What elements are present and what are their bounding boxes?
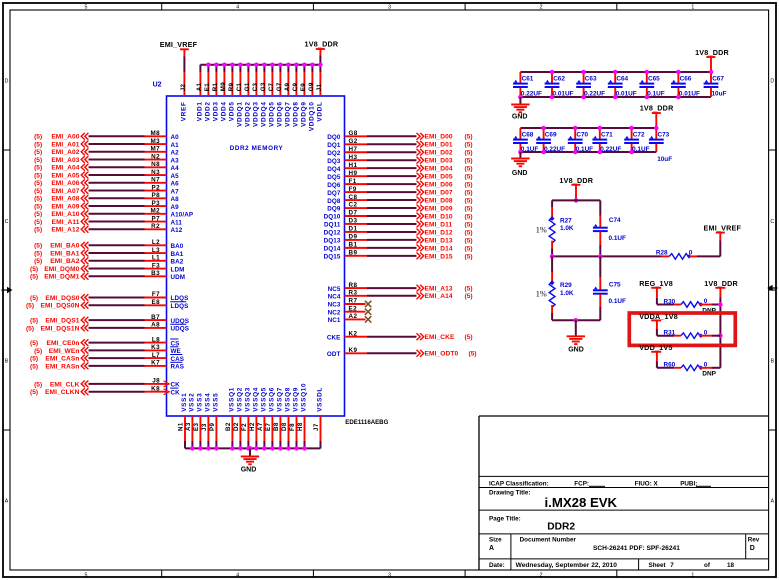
resistor R28 0 <box>656 250 697 260</box>
svg-text:A7: A7 <box>257 422 264 431</box>
svg-text:NC4: NC4 <box>328 294 341 301</box>
pin VSSQ5 (A7) <box>257 387 267 448</box>
wire net EMI_D07 <box>367 191 417 193</box>
svg-text:CK: CK <box>171 382 181 389</box>
junction bank2 top / C69 <box>541 126 546 131</box>
pin VSSQ3 (F2) <box>241 387 251 448</box>
net label EMI_WEn <box>34 348 79 355</box>
svg-text:(5): (5) <box>465 134 473 141</box>
net label EMI_A04 <box>34 165 80 172</box>
pin A11 (P7) <box>145 215 183 226</box>
svg-text:C63: C63 <box>585 75 597 82</box>
svg-text:B9: B9 <box>349 250 358 257</box>
wire net EMI_D06 <box>367 183 417 185</box>
svg-text:VSSQ4: VSSQ4 <box>252 387 259 412</box>
svg-text:R9: R9 <box>228 82 235 91</box>
svg-text:DDR2: DDR2 <box>547 522 575 533</box>
junction VSS bus / VSSQ9 <box>294 446 299 451</box>
svg-text:F2: F2 <box>241 423 248 431</box>
svg-text:G2: G2 <box>349 138 358 145</box>
svg-text:EMI_A14: EMI_A14 <box>425 293 453 300</box>
wire net EMI_DQS1 <box>89 319 145 321</box>
svg-text:Size: Size <box>489 537 502 544</box>
junction rail / R31 <box>718 333 723 338</box>
net label EMI_D09 <box>425 205 473 212</box>
svg-text:1%: 1% <box>536 290 547 299</box>
svg-text:DQ10: DQ10 <box>324 214 341 221</box>
svg-text:EMI_WEn: EMI_WEn <box>49 348 80 355</box>
svg-text:0.01UF: 0.01UF <box>616 90 637 97</box>
svg-text:NC3: NC3 <box>328 302 341 309</box>
svg-text:(5): (5) <box>465 293 473 300</box>
pin VDDQ3 (C3) <box>252 65 259 127</box>
pin A2 (M7) <box>145 146 180 157</box>
net label EMI_D13 <box>425 237 473 244</box>
svg-text:EMI_A01: EMI_A01 <box>51 141 79 148</box>
svg-text:VSSDL: VSSDL <box>316 387 323 412</box>
net label EMI_A09 <box>34 203 80 210</box>
junction VDD bus / VDDQ3 <box>254 62 259 67</box>
wire net EMI_CKE <box>367 336 417 338</box>
svg-text:VSS3: VSS3 <box>196 393 203 412</box>
wire net EMI_D02 <box>367 151 417 153</box>
pin VDDQ8 (C9) <box>292 65 299 127</box>
svg-text:F7: F7 <box>152 291 160 298</box>
power symbol 1V8_DDR (cap bank C68-C73) <box>640 104 674 113</box>
wire net EMI_D10 <box>367 215 417 217</box>
svg-text:0.01UF: 0.01UF <box>553 90 574 97</box>
svg-text:F3: F3 <box>152 262 160 269</box>
svg-text:(5): (5) <box>34 250 42 257</box>
wire net EMI_A06 <box>89 182 145 184</box>
junction VDD bus / VDDQ1 <box>238 62 243 67</box>
off-page connector EMI_CASn <box>81 355 88 362</box>
svg-text:C73: C73 <box>658 132 670 139</box>
capacitor C64 <box>608 72 637 97</box>
revision marker arrow right <box>767 285 777 291</box>
wire net EMI_ODT0 <box>367 352 417 354</box>
svg-text:A5: A5 <box>171 173 180 180</box>
svg-text:VDDQ8: VDDQ8 <box>292 101 299 127</box>
net label EMI_CLKN <box>30 389 80 396</box>
svg-text:A10/AP: A10/AP <box>171 212 194 219</box>
svg-text:L8: L8 <box>152 336 160 343</box>
svg-text:N3: N3 <box>151 169 160 176</box>
wire net EMI_BA2 <box>89 260 145 262</box>
pin CS (L8) <box>145 336 180 347</box>
wire EMI_VREF to VREF pin <box>183 57 185 73</box>
capacitor C73 <box>649 128 672 163</box>
capacitor C69 <box>536 128 565 153</box>
svg-text:EMI_A05: EMI_A05 <box>51 172 79 179</box>
svg-text:0: 0 <box>704 361 708 368</box>
svg-text:R60: R60 <box>664 362 676 369</box>
wire net EMI_DQS1N <box>89 327 145 329</box>
capacitor C66 <box>671 72 700 97</box>
svg-text:M2: M2 <box>150 208 160 215</box>
net label EMI_A01 <box>34 141 80 148</box>
svg-text:(5): (5) <box>34 134 42 141</box>
svg-text:A12: A12 <box>171 227 183 234</box>
svg-text:VSSQ7: VSSQ7 <box>276 387 283 412</box>
svg-text:EMI_A04: EMI_A04 <box>51 165 79 172</box>
svg-text:(5): (5) <box>30 363 38 370</box>
wire R28 to EMI_VREF <box>697 241 720 257</box>
wire net EMI_DQS0N <box>89 304 145 306</box>
net label EMI_D14 <box>425 245 473 252</box>
svg-text:(5): (5) <box>465 205 473 212</box>
power symbol 1V8_DDR (chip VDD rail) <box>305 39 339 55</box>
pin DQ8 (C8) <box>327 194 367 205</box>
svg-text:A: A <box>489 545 494 552</box>
svg-text:(5): (5) <box>26 303 34 310</box>
pin DQ14 (B1) <box>324 242 367 253</box>
net label EMI_DQS1 <box>30 318 80 325</box>
off-page connector EMI_A13 <box>417 285 424 292</box>
off-page connector EMI_DQM1 <box>81 273 88 280</box>
net label EMI_A05 <box>34 172 80 179</box>
svg-text:EMI_BA1: EMI_BA1 <box>50 250 80 257</box>
pin A9 (P3) <box>145 200 180 211</box>
svg-text:A0: A0 <box>171 134 180 141</box>
resistor R60 0 DNP <box>657 352 721 371</box>
off-page connector EMI_D07 <box>417 189 424 196</box>
junction bank2 top / C73 <box>654 126 659 131</box>
junction bank1 top / C62 <box>550 70 555 75</box>
svg-text:A3: A3 <box>171 157 180 164</box>
svg-text:(5): (5) <box>465 245 473 252</box>
svg-text:R28: R28 <box>656 250 668 257</box>
svg-text:0.22UF: 0.22UF <box>600 146 621 153</box>
junction bank2 bottom / C70 <box>573 150 578 155</box>
svg-text:(5): (5) <box>465 334 473 341</box>
junction VSS bus / VSSQ3 <box>246 446 251 451</box>
svg-text:B8: B8 <box>273 422 280 431</box>
svg-text:DQ1: DQ1 <box>327 142 341 149</box>
svg-text:EMI_D09: EMI_D09 <box>425 205 453 212</box>
off-page connector EMI_RASn <box>81 363 88 370</box>
off-page connector EMI_D01 <box>417 141 424 148</box>
net label EMI_DQM0 <box>30 266 80 273</box>
title block page title <box>489 516 575 533</box>
title block ICAP classification row <box>489 480 711 487</box>
svg-text:C3: C3 <box>252 82 259 91</box>
svg-text:EMI_A09: EMI_A09 <box>51 203 79 210</box>
svg-text:C: C <box>5 219 9 225</box>
svg-text:G9: G9 <box>308 82 315 91</box>
wire 1V8_DDR to C73 <box>655 113 657 128</box>
wire net EMI_A05 <box>89 174 145 176</box>
svg-text:E9: E9 <box>300 83 307 92</box>
svg-text:0.1UF: 0.1UF <box>632 146 649 153</box>
svg-text:L7: L7 <box>152 352 160 359</box>
svg-text:R3: R3 <box>349 290 358 297</box>
off-page connector EMI_BA2 <box>81 257 88 264</box>
svg-text:2: 2 <box>540 5 543 11</box>
svg-text:P7: P7 <box>151 215 160 222</box>
svg-text:CK: CK <box>171 389 181 396</box>
svg-text:VSS2: VSS2 <box>188 393 195 412</box>
svg-text:1: 1 <box>691 5 694 11</box>
svg-text:1: 1 <box>691 572 694 578</box>
wire VSS bus to ground <box>249 448 251 456</box>
capacitor C68 <box>513 128 538 153</box>
pin VDDQ2 (G1) <box>244 65 251 127</box>
svg-text:(5): (5) <box>34 219 42 226</box>
svg-text:A8: A8 <box>151 322 160 329</box>
pin RAS (K7) <box>145 360 185 371</box>
pin VDDL (J1) <box>316 65 323 122</box>
svg-text:P3: P3 <box>151 200 160 207</box>
pin VREF (J2) <box>180 72 187 121</box>
junction VSS bus / VSSQ8 <box>286 446 291 451</box>
off-page connector EMI_A08 <box>81 195 88 202</box>
svg-text:N1: N1 <box>178 422 185 431</box>
svg-text:(5): (5) <box>30 266 38 273</box>
wire net EMI_DQM1 <box>89 275 145 277</box>
svg-text:A6: A6 <box>171 181 180 188</box>
junction bank1 top / C64 <box>613 70 618 75</box>
svg-text:Rev: Rev <box>748 537 760 544</box>
wire divider bottom rail <box>552 319 600 321</box>
junction VDD bus / VDD2 <box>206 62 211 67</box>
svg-text:(5): (5) <box>34 211 42 218</box>
off-page connector EMI_A09 <box>81 203 88 210</box>
net label EMI_A14 <box>425 293 473 300</box>
junction bank1 top / C63 <box>581 70 586 75</box>
net label EMI_A07 <box>34 188 80 195</box>
off-page connector EMI_D10 <box>417 213 424 220</box>
svg-text:(5): (5) <box>34 172 42 179</box>
off-page connector EMI_BA0 <box>81 242 88 249</box>
off-page connector EMI_A10 <box>81 210 88 217</box>
svg-text:C2: C2 <box>349 202 358 209</box>
wire cap bank1 top bus <box>520 71 711 73</box>
wire net EMI_D14 <box>367 247 417 249</box>
svg-text:LDM: LDM <box>171 266 185 273</box>
junction bank2 top / C72 <box>629 126 634 131</box>
svg-text:L3: L3 <box>152 247 160 254</box>
pin VSSQ6 (E7) <box>265 387 275 448</box>
pin VDDQ5 (C7) <box>268 65 275 127</box>
svg-text:F9: F9 <box>349 186 357 193</box>
svg-text:FCP:: FCP: <box>574 480 589 487</box>
svg-text:B7: B7 <box>151 314 160 321</box>
svg-text:E2: E2 <box>349 305 358 312</box>
svg-text:NC1: NC1 <box>328 317 341 324</box>
svg-text:0: 0 <box>704 298 708 305</box>
wire net EMI_CLK <box>89 383 145 385</box>
pin CAS (L7) <box>145 352 185 363</box>
wire VDD bus <box>200 64 320 66</box>
junction bank1 top / C67 <box>709 70 714 75</box>
wire net EMI_DQS0 <box>89 297 145 299</box>
pin DQ15 (B9) <box>324 250 367 261</box>
svg-text:DQ11: DQ11 <box>324 222 341 229</box>
svg-text:E7: E7 <box>265 422 272 431</box>
svg-text:1.0K: 1.0K <box>560 225 574 232</box>
svg-text:EMI_ODT0: EMI_ODT0 <box>425 351 459 358</box>
svg-text:CAS: CAS <box>171 356 185 363</box>
svg-text:VDD5: VDD5 <box>228 101 235 121</box>
svg-text:1V8_DDR: 1V8_DDR <box>695 48 729 57</box>
pin VSS2 (A3) <box>185 393 195 449</box>
svg-text:i.MX28 EVK: i.MX28 EVK <box>545 495 618 510</box>
junction VDD bus / VDDQ2 <box>246 62 251 67</box>
off-page connector EMI_D14 <box>417 244 424 251</box>
svg-text:1%: 1% <box>536 226 547 235</box>
svg-text:CKE: CKE <box>327 334 341 341</box>
svg-text:B1: B1 <box>349 242 358 249</box>
svg-text:EMI_A08: EMI_A08 <box>51 196 79 203</box>
svg-text:C68: C68 <box>522 132 534 139</box>
power symbol REG_1V8 <box>639 279 673 288</box>
svg-text:VSS4: VSS4 <box>204 393 211 412</box>
wire net EMI_D04 <box>367 167 417 169</box>
svg-text:M8: M8 <box>150 130 160 137</box>
svg-text:R27: R27 <box>560 218 572 225</box>
svg-text:Page Title:: Page Title: <box>489 516 521 523</box>
pin CKE (K2) <box>327 330 367 341</box>
svg-text:(5): (5) <box>465 174 473 181</box>
svg-text:DQ12: DQ12 <box>324 230 341 237</box>
svg-text:EMI_D07: EMI_D07 <box>425 189 453 196</box>
resistor R27 1.0K <box>549 200 574 256</box>
junction bank2 top / C71 <box>598 126 603 131</box>
svg-text:R30: R30 <box>664 298 676 305</box>
wire net EMI_A07 <box>89 190 145 192</box>
capacitor C74 0.1UF <box>593 200 626 256</box>
svg-text:3: 3 <box>388 572 391 578</box>
power symbol 1V8_DDR (resistor rail) <box>704 279 738 288</box>
svg-text:RAS: RAS <box>171 364 185 371</box>
svg-text:GND: GND <box>241 467 257 474</box>
junction bank1 bottom / C62 <box>550 95 555 100</box>
wire net EMI_D09 <box>367 207 417 209</box>
off-page connector EMI_ODT0 <box>417 350 424 357</box>
off-page connector EMI_CLKN <box>81 388 88 395</box>
svg-text:(5): (5) <box>34 348 42 355</box>
part number EDE1116AEBG <box>345 419 388 426</box>
off-page connector EMI_A02 <box>81 148 88 155</box>
pin DQ2 (H7) <box>327 146 367 157</box>
svg-text:ODT: ODT <box>327 351 341 358</box>
wire 1V8_DDR to VDD bus <box>319 55 321 64</box>
svg-text:Wednesday, September 22, 2010: Wednesday, September 22, 2010 <box>516 562 618 569</box>
svg-text:EMI_D02: EMI_D02 <box>425 150 453 157</box>
pin DQ3 (H3) <box>327 154 367 165</box>
svg-text:DQ2: DQ2 <box>327 150 341 157</box>
svg-text:C71: C71 <box>601 132 613 139</box>
pin VSSQ9 (F8) <box>289 387 299 448</box>
wire net EMI_D03 <box>367 159 417 161</box>
svg-text:VSSQ5: VSSQ5 <box>260 387 267 412</box>
svg-text:EMI_D12: EMI_D12 <box>425 229 453 236</box>
svg-text:4: 4 <box>236 5 239 11</box>
pin DQ4 (H1) <box>327 162 367 173</box>
svg-text:NC5: NC5 <box>328 286 341 293</box>
svg-text:0.22UF: 0.22UF <box>521 90 542 97</box>
wire divider top rail <box>552 199 600 201</box>
off-page connector EMI_D03 <box>417 157 424 164</box>
wire net EMI_D15 <box>367 255 417 257</box>
net label EMI_RASn <box>30 363 79 370</box>
svg-text:K3: K3 <box>151 344 160 351</box>
wire bottom rail to ground <box>575 320 577 336</box>
svg-text:EMI_BA2: EMI_BA2 <box>50 258 80 265</box>
wire net EMI_A04 <box>89 166 145 168</box>
svg-text:DQ15: DQ15 <box>324 254 341 261</box>
svg-text:R29: R29 <box>560 282 572 289</box>
svg-text:A7: A7 <box>171 188 180 195</box>
svg-text:(5): (5) <box>30 356 38 363</box>
svg-text:VSSQ3: VSSQ3 <box>244 387 251 412</box>
pin UDM (B3) <box>145 270 186 281</box>
off-page connector EMI_D08 <box>417 197 424 204</box>
svg-text:H7: H7 <box>349 146 358 153</box>
svg-text:EMI_D04: EMI_D04 <box>425 166 453 173</box>
svg-text:DQ5: DQ5 <box>327 174 341 181</box>
junction bank1 bottom / C66 <box>676 95 681 100</box>
svg-text:A1: A1 <box>196 82 203 91</box>
svg-text:C75: C75 <box>609 282 621 289</box>
svg-text:EMI_A00: EMI_A00 <box>51 134 79 141</box>
svg-text:C1: C1 <box>236 82 243 91</box>
wire net EMI_A00 <box>89 135 145 137</box>
pin VSSQ4 (H2) <box>249 387 259 448</box>
off-page connector EMI_CLK <box>81 381 88 388</box>
svg-text:EMI_CE0n: EMI_CE0n <box>46 340 79 347</box>
svg-text:A9: A9 <box>284 82 291 91</box>
svg-text:EMI_CASn: EMI_CASn <box>45 356 79 363</box>
highlight annotation box around R31 <box>629 313 735 345</box>
off-page connector EMI_D06 <box>417 181 424 188</box>
svg-text:EMI_CKE: EMI_CKE <box>425 334 456 341</box>
svg-text:EMI_DQM1: EMI_DQM1 <box>44 274 79 281</box>
junction bank1 bottom / C61 <box>518 95 523 100</box>
net label EMI_BA2 <box>34 258 80 265</box>
off-page connector EMI_CKE <box>417 333 424 340</box>
pin A5 (N3) <box>145 169 180 180</box>
capacitor C61 <box>513 72 542 97</box>
net label EMI_D05 <box>425 174 473 181</box>
svg-text:L2: L2 <box>152 239 160 246</box>
svg-text:0: 0 <box>704 329 708 336</box>
svg-text:(5): (5) <box>465 197 473 204</box>
svg-text:A3: A3 <box>185 422 192 431</box>
pin A8 (P8) <box>145 192 180 203</box>
svg-text:(5): (5) <box>465 286 473 293</box>
junction VSS bus / VSS3 <box>198 446 203 451</box>
pin LDQS (F7) <box>145 291 189 302</box>
pin BA0 (L2) <box>145 239 184 250</box>
svg-text:0.22UF: 0.22UF <box>544 146 565 153</box>
power symbol VDD_1V5 <box>639 343 672 352</box>
off-page connector EMI_A01 <box>81 141 88 148</box>
off-page connector EMI_D15 <box>417 252 424 259</box>
svg-text:C8: C8 <box>349 194 358 201</box>
off-page connector EMI_A06 <box>81 179 88 186</box>
wire resistor output rail <box>719 305 721 368</box>
pin CK (K8) <box>145 385 181 396</box>
net label EMI_CLK <box>34 381 80 388</box>
svg-text:VDD1: VDD1 <box>196 101 203 121</box>
wire 1V8_DDR down to rail <box>719 288 721 305</box>
svg-text:VSSQ10: VSSQ10 <box>300 383 307 412</box>
svg-text:E1: E1 <box>204 83 211 92</box>
wire net EMI_A03 <box>89 159 145 161</box>
pin VDDQ9 (E9) <box>300 65 307 127</box>
